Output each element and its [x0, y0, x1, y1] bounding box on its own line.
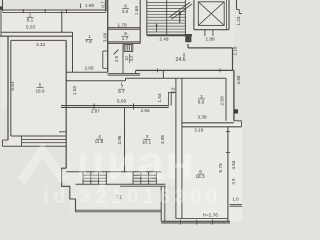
rooms 8 9 box left wall	[107, 0, 109, 72]
svg-text:24.6: 24.6	[175, 57, 185, 63]
window room 4	[82, 172, 84, 185]
stair arrow right flight	[179, 13, 181, 24]
svg-text:3.18: 3.18	[194, 128, 204, 133]
stair arrow left flight	[156, 25, 158, 32]
elevator door stubs	[204, 30, 206, 36]
watermark cian logo chevron	[21, 150, 64, 181]
svg-text:5.61: 5.61	[10, 81, 15, 91]
svg-text:8.1: 8.1	[27, 18, 34, 23]
room 5 outer left wall	[7, 36, 9, 140]
svg-text:5.03: 5.03	[26, 24, 36, 29]
wc bottom wall double	[108, 73, 141, 75]
wc door arc	[114, 50, 119, 55]
wc divider wall	[122, 43, 124, 73]
dim ticks on room 6 right wall	[226, 131, 230, 133]
room 6 inner bottom wall	[176, 218, 228, 220]
room 2 bottom wall	[182, 122, 234, 124]
room 5 bottom window band	[11, 135, 66, 137]
room 2 right wall	[61, 11, 63, 32]
landing walls	[187, 44, 189, 48]
tick above hallway label	[121, 83, 123, 86]
hallway top wall	[66, 80, 125, 82]
room 9 bottom wall	[108, 41, 141, 43]
svg-text:1.88: 1.88	[205, 37, 215, 42]
svg-text:0.9: 0.9	[114, 55, 119, 61]
svg-text:2.05: 2.05	[84, 66, 94, 71]
bottom outer wall double	[161, 220, 230, 222]
left boundary	[0, 11, 2, 36]
door tick room 3	[133, 104, 135, 110]
wall between room 8 and 9	[108, 27, 141, 29]
svg-text:1.69: 1.69	[134, 6, 139, 15]
svg-text:2.49: 2.49	[159, 37, 169, 42]
loggia stub right	[230, 204, 243, 206]
room and dimension labels	[26, 3, 239, 219]
svg-text:0.9: 0.9	[231, 178, 236, 184]
stairs left rail	[146, 0, 148, 35]
room 5 inner left wall	[10, 40, 12, 136]
top outer wall double line	[3, 9, 106, 11]
room 2 bottom wall	[1, 31, 73, 33]
stair landing wall block	[185, 34, 191, 42]
ventilation shaft hatched box	[124, 45, 133, 52]
top wall corner vertical	[105, 0, 107, 12]
svg-text:2.18: 2.18	[232, 46, 237, 55]
corridor jog	[103, 50, 108, 52]
stairs bottom wall	[147, 34, 192, 36]
niche walls	[160, 186, 162, 221]
room 5 inner corner line	[59, 131, 66, 133]
room 6 top wall	[182, 126, 242, 128]
svg-text:0.8: 0.8	[170, 87, 175, 93]
svg-text:0.7: 0.7	[101, 1, 106, 8]
window ticks on top wall	[22, 9, 24, 13]
inner wall connector	[162, 70, 164, 78]
svg-text:h=2.76: h=2.76	[203, 213, 218, 219]
outer band wall	[0, 35, 73, 37]
room 5 / room 4 shared right wall	[65, 40, 67, 168]
bottom wall inner rooms 3 4	[66, 171, 161, 173]
paper background	[0, 0, 242, 226]
svg-text:2: 2	[200, 94, 203, 99]
svg-text:3.08: 3.08	[102, 33, 107, 43]
svg-text:3.2: 3.2	[129, 55, 134, 61]
balcony step outline	[62, 168, 76, 212]
dim tick above 24.6	[183, 53, 185, 57]
room 2 inner right wall	[225, 78, 227, 121]
dim tick 1.99 left end	[80, 4, 82, 9]
rotated dimension labels	[10, 1, 241, 185]
rooms 8 9 box right wall	[139, 0, 141, 43]
svg-text:5: 5	[39, 82, 42, 87]
room 3 room 4 divider wall	[124, 107, 126, 171]
corridor wall 2.05	[66, 71, 108, 73]
room 6 right wall	[227, 127, 229, 222]
svg-text:5.69: 5.69	[117, 98, 127, 103]
svg-text:1.99: 1.99	[85, 3, 94, 8]
svg-text:4.68: 4.68	[236, 75, 241, 84]
svg-text:6.7: 6.7	[118, 89, 125, 94]
right pier top	[236, 0, 238, 10]
wall pier block top-left corner	[0, 6, 3, 10]
svg-text:2.87: 2.87	[91, 109, 101, 114]
window ticks bottom wall	[180, 220, 182, 225]
svg-text:5.79: 5.79	[218, 163, 224, 173]
svg-text:id 321016300: id 321016300	[43, 186, 222, 208]
svg-text:2.56: 2.56	[140, 108, 150, 113]
stair treads	[147, 3, 186, 33]
svg-text:1.0: 1.0	[232, 196, 239, 201]
fraction lines	[27, 8, 206, 174]
stairs middle rail	[166, 0, 168, 35]
elevator shaft outer	[193, 0, 195, 30]
room 5 top inner wall	[11, 39, 66, 41]
elevator shaft inner with X	[198, 2, 224, 26]
door tick hallway bottom	[93, 104, 95, 110]
svg-text:4.64: 4.64	[231, 160, 236, 169]
top right outer wall	[136, 69, 234, 71]
svg-text:3.0: 3.0	[122, 9, 129, 14]
right outer wall vertical	[233, 70, 235, 120]
left edge wall stub top	[2, 0, 4, 12]
svg-text:3.32: 3.32	[36, 42, 46, 47]
svg-text:18.3: 18.3	[195, 174, 205, 179]
svg-text:7.8: 7.8	[85, 39, 92, 44]
svg-text:циан: циан	[76, 137, 196, 190]
door stubs hallway east	[168, 92, 170, 106]
bottom wall outer rooms 3 4	[76, 183, 166, 185]
apartment floor fills	[1, 10, 108, 108]
balcony bottom double line	[76, 209, 162, 211]
room 5 bottom-left wall step	[3, 139, 9, 141]
svg-text:1.79: 1.79	[117, 23, 127, 28]
svg-text:1.53: 1.53	[72, 86, 77, 95]
stairs right rail	[184, 0, 186, 35]
svg-text:8: 8	[124, 3, 127, 8]
svg-text:1.7: 1.7	[122, 36, 129, 41]
svg-text:18.6: 18.6	[35, 88, 45, 93]
hallway bottom wall double	[61, 105, 169, 107]
svg-text:1.54: 1.54	[157, 93, 162, 102]
stair direction diagonals	[169, 2, 190, 17]
right jog above room 6	[234, 120, 242, 122]
svg-text:3.38: 3.38	[197, 115, 207, 120]
window room 3	[132, 172, 134, 185]
window ticks on outer wall	[157, 68, 159, 72]
stair arrowheads	[155, 23, 158, 26]
column marker square	[234, 109, 238, 113]
svg-text:8.9: 8.9	[198, 99, 205, 104]
double wall room3 and room6	[175, 78, 177, 218]
svg-text:2.50: 2.50	[220, 96, 226, 106]
svg-text:1.23: 1.23	[236, 16, 241, 25]
corridor wall vertical	[72, 32, 74, 72]
